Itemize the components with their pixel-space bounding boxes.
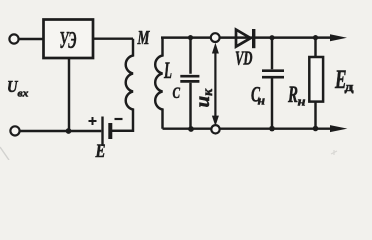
battery E long plate xyxy=(101,117,103,147)
wire bottom rail xyxy=(163,127,332,129)
transformer primary winding xyxy=(112,39,133,131)
voltage arrow uk line xyxy=(214,50,216,118)
wire xyxy=(20,130,102,132)
node junction xyxy=(313,35,318,40)
node junction xyxy=(269,126,275,132)
capacitor Cn wires xyxy=(271,38,273,129)
resistor Rn wires xyxy=(314,38,316,129)
block UE U1 xyxy=(44,20,94,59)
node junction xyxy=(66,128,72,134)
node junction xyxy=(188,35,193,40)
output arrow top xyxy=(330,34,347,41)
paper background xyxy=(0,0,372,160)
svg-text:E: E xyxy=(95,142,106,160)
battery E short plate xyxy=(108,123,112,139)
node junction xyxy=(188,126,194,132)
scan smudge bottom-left xyxy=(0,147,9,160)
node circle top xyxy=(211,33,220,42)
plus sign xyxy=(89,117,97,125)
wire xyxy=(18,38,43,40)
svg-text:L: L xyxy=(163,58,172,83)
capacitor C plates xyxy=(180,76,199,81)
diode VD triangle xyxy=(236,30,251,47)
svg-text:д: д xyxy=(345,79,355,94)
terminal input top xyxy=(9,34,18,43)
wire xyxy=(93,37,133,39)
scan smudge bottom-right xyxy=(331,150,337,155)
diode VD cathode bar xyxy=(252,29,255,48)
resistor Rn body xyxy=(309,57,323,102)
svg-text:M: M xyxy=(137,27,150,49)
output arrow bottom xyxy=(330,125,347,132)
terminal input bottom xyxy=(10,126,19,135)
wire top rail xyxy=(161,36,331,38)
node junction xyxy=(313,126,319,132)
wire xyxy=(112,130,133,132)
svg-text:вх: вх xyxy=(18,88,30,100)
svg-text:н: н xyxy=(258,93,266,108)
node circle bottom xyxy=(211,125,219,133)
svg-text:C: C xyxy=(173,85,181,102)
svg-text:УЭ: УЭ xyxy=(60,27,77,54)
minus sign xyxy=(115,118,123,120)
svg-text:R: R xyxy=(287,82,298,107)
node junction xyxy=(269,35,274,40)
svg-text:VD: VD xyxy=(235,49,253,70)
wire xyxy=(68,58,70,131)
capacitor C wires xyxy=(189,38,191,129)
svg-text:н: н xyxy=(298,94,306,109)
svg-text:U: U xyxy=(7,77,18,96)
arrowhead up xyxy=(212,43,219,54)
arrowhead down xyxy=(212,116,219,127)
transformer secondary winding L xyxy=(155,38,162,129)
capacitor Cn plates xyxy=(262,71,284,78)
